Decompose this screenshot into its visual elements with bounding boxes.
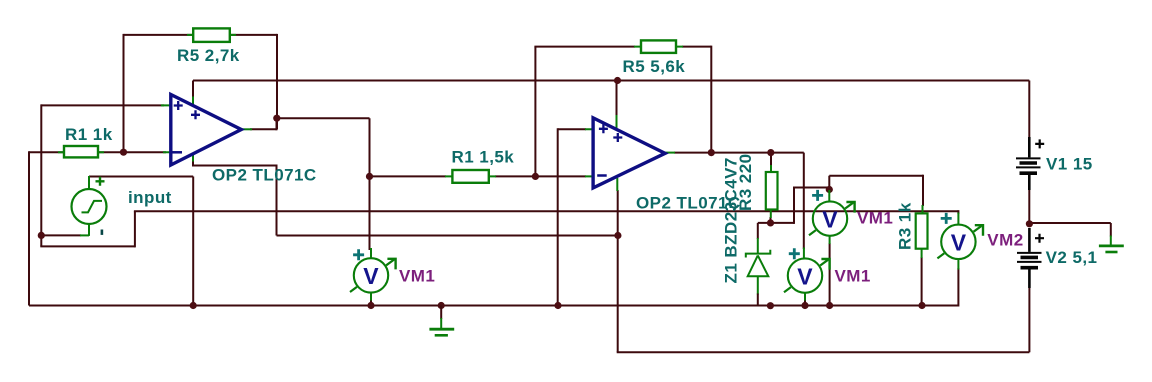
wire VM1 mid meter minus bbox=[370, 300, 372, 306]
node VM1 mid minus bbox=[367, 302, 374, 309]
wire R1 left lead bbox=[29, 151, 64, 153]
wire stub R3 220 bbox=[770, 165, 772, 218]
wire source minus horizontal bbox=[41, 234, 81, 236]
wire output down to VM1 bottom meter bbox=[803, 153, 805, 249]
wire R3 220 top lead bbox=[770, 153, 772, 166]
wire stub U1 inputs bbox=[161, 105, 170, 152]
svg-text:V: V bbox=[951, 230, 967, 256]
battery V1 bbox=[1016, 137, 1044, 190]
wire up to VM1 plus node bbox=[793, 188, 795, 224]
voltmeter VM1 bottom bbox=[784, 248, 830, 293]
wire U2 + input to ground bbox=[557, 128, 559, 305]
wire bus B negative supply rail bbox=[277, 235, 618, 237]
wire source plus to ground bus bbox=[192, 177, 194, 306]
wire stub source top bbox=[88, 176, 90, 190]
node ground U2 + bbox=[554, 302, 561, 309]
node VM1 top plus bbox=[826, 186, 833, 193]
node feedback R5 5,6k bbox=[708, 149, 715, 156]
wire to R3 1k top bbox=[829, 175, 923, 177]
wire V2 bottom down bbox=[1028, 288, 1030, 352]
svg-text:V2 5,1: V2 5,1 bbox=[1046, 248, 1098, 267]
resistor R3 220 vertical bbox=[766, 172, 778, 210]
wire feedback right vertical to output node bbox=[276, 34, 278, 129]
wire down to R1 1,5k row bbox=[369, 118, 371, 250]
wire U1 V- horizontal bbox=[192, 165, 277, 167]
wire VM1 node corner bbox=[828, 176, 830, 191]
wire output node to stage 2 bbox=[277, 117, 370, 119]
wire stub U2 inputs bbox=[585, 129, 593, 176]
node zener R3 junction bbox=[767, 219, 774, 226]
wire stub source bottom bbox=[88, 224, 90, 236]
wire + input vertical to source minus node bbox=[40, 104, 42, 246]
wire U1 V- vertical down bbox=[276, 165, 278, 236]
op-amp U1 bbox=[171, 95, 242, 166]
wire op-amp U2 V- pin bbox=[617, 190, 619, 237]
node zener bottom bbox=[767, 302, 774, 309]
wire R5 5,6k right vertical bbox=[710, 46, 712, 153]
wire V+ supply rail bbox=[193, 80, 1029, 82]
wire R5 5,6k left vertical bbox=[534, 47, 536, 177]
wire stub zener bbox=[757, 238, 759, 295]
wire R3 220 bottom lead bbox=[770, 217, 772, 223]
green component leads bbox=[58, 35, 958, 306]
resistor R5 2,7k bbox=[193, 28, 230, 42]
svg-text:V1 15: V1 15 bbox=[1046, 154, 1093, 173]
wire to VM1 top meter plus bbox=[793, 187, 829, 189]
node U1 output bbox=[273, 115, 280, 122]
svg-text:input: input bbox=[128, 188, 172, 207]
wire jog bottom of source node bbox=[40, 245, 135, 247]
wire bus A reference rail bbox=[134, 210, 959, 212]
wire stub U2 V+ bbox=[616, 115, 618, 128]
wire stub R5 2,7k bbox=[187, 34, 236, 36]
wire R1 1,5k row and inverting bus bbox=[370, 175, 587, 177]
wire output up to node bbox=[276, 118, 278, 130]
node ground symbol bbox=[438, 302, 445, 309]
resistor R1 1,5k bbox=[452, 170, 488, 183]
wire R3 1k top lead bbox=[922, 175, 924, 206]
svg-text:OP2 TL071C: OP2 TL071C bbox=[212, 166, 317, 185]
voltmeter VM1 mid bbox=[350, 249, 396, 292]
wire node to zener bbox=[758, 222, 794, 224]
wire stub VM1 top bbox=[828, 190, 830, 244]
node U2 V- bbox=[614, 232, 621, 239]
node R3 220 top bbox=[767, 149, 774, 156]
node R3 1k bottom bbox=[918, 302, 925, 309]
svg-text:R5 2,7k: R5 2,7k bbox=[177, 46, 240, 65]
wire stub U2 output bbox=[665, 152, 675, 154]
svg-text:V: V bbox=[797, 263, 813, 289]
wire stub R1 1k bbox=[58, 151, 104, 153]
wire R5 2,7k left lead bbox=[124, 34, 194, 36]
wire zener top bbox=[757, 223, 759, 239]
node U2 V+ bbox=[614, 77, 621, 84]
wire U2 V- down to bottom rail bbox=[617, 236, 619, 353]
resistor R1 1k bbox=[64, 146, 98, 157]
wire op-amp U2 + input bbox=[558, 128, 586, 130]
wire op-amp U1 V+ pin bbox=[192, 81, 194, 98]
wire stub zener to bus bbox=[757, 294, 759, 306]
svg-text:VM1: VM1 bbox=[857, 209, 893, 228]
wire op-amp U1 + input bbox=[41, 104, 164, 106]
wire R1 right lead to inverting input bbox=[98, 151, 166, 153]
wire stub VM1 bottom bbox=[804, 248, 805, 301]
wire stub R3 1k bbox=[921, 205, 924, 258]
resistor R3 1k vertical bbox=[916, 213, 928, 248]
node VM1 top minus bbox=[826, 302, 833, 309]
wire op-amp U1 V- pin bbox=[192, 161, 194, 166]
wire right ground drop bbox=[1110, 223, 1112, 237]
svg-text:R1 1,5k: R1 1,5k bbox=[452, 148, 515, 167]
node V1 V2 junction bbox=[1026, 220, 1033, 227]
wire op-amp U1 output bbox=[250, 128, 277, 130]
node source minus bbox=[38, 232, 45, 239]
zener diode Z1 bbox=[746, 250, 771, 277]
wire R1 left to ground bus bbox=[28, 151, 30, 305]
svg-text:VM2: VM2 bbox=[987, 231, 1023, 250]
wire stub U1 V- bbox=[192, 154, 194, 162]
svg-text:R1 1k: R1 1k bbox=[65, 125, 113, 144]
wire R5 2,7k right lead bbox=[230, 34, 277, 36]
wire V1 bottom to mid node bbox=[1028, 190, 1030, 224]
wire stub U1 V+ bbox=[192, 97, 194, 107]
svg-text:VM1: VM1 bbox=[399, 266, 435, 285]
wire stub R5 5,6k bbox=[634, 46, 683, 48]
wire jog vertical bbox=[134, 211, 136, 247]
svg-text:R3 220: R3 220 bbox=[736, 153, 755, 211]
svg-text:V: V bbox=[363, 263, 379, 289]
battery V2 bbox=[1017, 228, 1044, 288]
input source VG1 bbox=[72, 177, 107, 235]
voltmeter VM1 top bbox=[809, 190, 855, 236]
node source plus ground bbox=[190, 302, 197, 309]
svg-text:R3 1k: R3 1k bbox=[896, 202, 915, 250]
ground symbol mid bbox=[429, 306, 454, 336]
wire VM1 top meter minus down bbox=[829, 243, 831, 306]
wire stub VM2 bbox=[957, 213, 959, 270]
wire bus A to VM2 bbox=[957, 210, 959, 214]
wire feedback left vertical to node A bbox=[123, 34, 125, 152]
wire stub U1 output bbox=[241, 128, 252, 130]
wire stub VM1 mid bbox=[370, 248, 372, 301]
node R1 1,5k left bbox=[366, 173, 373, 180]
wire R3 1k bottom lead bbox=[921, 257, 923, 306]
wire bottom negative rail bbox=[617, 351, 1030, 353]
wire stub U2 V- bbox=[616, 178, 618, 191]
node A inverting input U1 bbox=[120, 149, 127, 156]
wire mid node to right ground bbox=[1029, 222, 1110, 224]
wire stub source minus lead bbox=[80, 234, 89, 236]
ground symbol right bbox=[1099, 236, 1124, 253]
wire source plus top bbox=[89, 176, 193, 178]
voltmeter VM2 bbox=[937, 213, 983, 259]
svg-text:VM1: VM1 bbox=[835, 266, 871, 285]
svg-text:R5 5,6k: R5 5,6k bbox=[623, 57, 686, 76]
wire R5 5,6k leads bbox=[534, 46, 711, 48]
wire ground bus bbox=[29, 305, 958, 307]
wire stub R1 1,5k bbox=[445, 175, 496, 177]
node VM1 bottom minus bbox=[801, 302, 808, 309]
svg-text:V: V bbox=[822, 206, 838, 232]
wire VM1 bottom meter minus bbox=[804, 300, 806, 306]
wire op-amp U2 output bbox=[674, 152, 804, 154]
node inverting input U2 bbox=[532, 173, 539, 180]
wire op-amp U2 V+ pin bbox=[616, 81, 618, 117]
op-amp U2 bbox=[593, 118, 665, 188]
wire V1 top from supply rail bbox=[1028, 81, 1030, 141]
resistor R5 5,6k bbox=[641, 40, 676, 53]
wire VM2 minus down bbox=[957, 268, 959, 307]
